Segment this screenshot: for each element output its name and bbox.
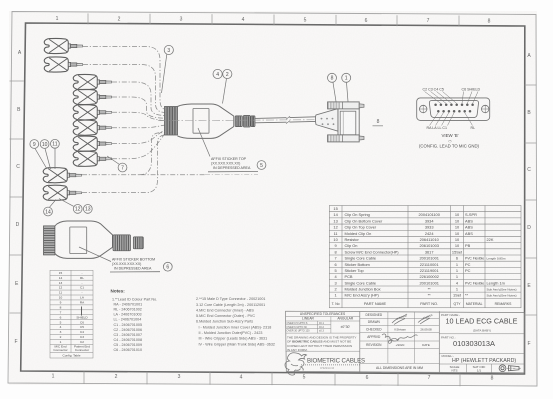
main cable (12 core)	[255, 116, 316, 123]
view B mounting hole right	[482, 105, 489, 112]
affix sticker bottom note	[112, 257, 155, 270]
zone numbers top	[56, 16, 491, 25]
callout balloon 7	[118, 163, 127, 172]
callout 8 leader	[333, 83, 336, 102]
biometric cables logo swan	[285, 353, 307, 375]
affix sticker top note	[211, 157, 251, 170]
callout 1 leader	[347, 83, 349, 102]
zone ticks bottom	[83, 371, 85, 384]
view B top leaders	[425, 92, 479, 104]
clip connector 6 (C-lead)	[73, 120, 111, 135]
clip connector 2 (RL lead)	[44, 57, 82, 72]
tolerance block	[286, 317, 360, 352]
callout balloon 13	[83, 205, 92, 214]
clip connector 4 (C-lead)	[73, 89, 111, 104]
part name cell	[439, 334, 524, 373]
view B connector shell	[417, 98, 490, 121]
parts list table	[329, 206, 521, 308]
callout 7 leader	[107, 156, 120, 165]
copyright note	[287, 335, 356, 352]
clip connector 8 (C-lead)	[73, 151, 111, 166]
wire lead 3	[112, 82, 166, 116]
projection symbol	[499, 365, 521, 372]
callout 14 leader	[50, 200, 57, 208]
callout balloon 1	[342, 73, 351, 82]
callout balloon 10	[40, 140, 49, 149]
callout 12/13 leader	[59, 199, 74, 207]
callout balloon 12	[73, 205, 82, 214]
junction strain-relief rings	[235, 115, 255, 127]
M/C end connector side view - boot	[316, 109, 339, 132]
wire lead 6	[112, 125, 166, 128]
notes column 2	[196, 297, 275, 346]
configuration table	[50, 270, 93, 358]
callout balloon 8	[328, 73, 337, 82]
signature block grid	[360, 312, 440, 364]
clip connector 7 (C-lead)	[73, 136, 111, 151]
view B mounting hole left	[420, 105, 427, 112]
molded junction wire gripper (leads side)	[165, 107, 178, 136]
wire lead 5	[112, 112, 166, 121]
title block outline	[286, 311, 525, 373]
affix sticker top leader	[198, 128, 210, 157]
clip connector 3 (C-lead)	[73, 74, 111, 89]
callout balloon 14	[44, 207, 53, 216]
view B pin labels top	[423, 87, 481, 91]
view B D-shell	[429, 100, 478, 117]
molded junction box bottom view	[55, 221, 113, 258]
connector bottom cap with knurl	[328, 135, 360, 142]
callout 4/2 leader	[223, 78, 227, 103]
M/C end connector body	[338, 108, 359, 137]
M/C end connector face plate	[340, 111, 356, 135]
molded junction box body	[178, 104, 234, 138]
view B pin labels bottom	[427, 126, 476, 130]
bottom thumbscrew stub	[359, 136, 364, 140]
bottom junction nozzle rings	[113, 235, 143, 251]
view B bottom leaders	[430, 113, 473, 126]
callout balloon 5	[257, 161, 266, 170]
callout balloon 4	[213, 69, 222, 78]
zone numbers bottom	[52, 374, 494, 382]
callout balloon 9	[30, 140, 39, 149]
wire lead 1	[83, 47, 166, 110]
clip connector 10 (LL lead)	[43, 185, 81, 200]
sticker top recess	[193, 109, 209, 134]
zone letters right	[527, 53, 531, 347]
clip connector 9 (LA lead)	[43, 168, 81, 183]
wire lead 10	[82, 135, 166, 193]
view B pins row 1	[434, 104, 474, 113]
connector top cap with knurl	[328, 102, 360, 109]
callout balloon 6	[163, 262, 172, 271]
wire lead 9	[82, 174, 205, 176]
wire lead 4	[112, 97, 166, 118]
top thumbscrew stub	[359, 104, 364, 108]
zone letters left	[14, 50, 21, 345]
notes column 1	[112, 297, 157, 352]
junction centre line	[158, 120, 338, 121]
main trunk wire gripper	[44, 226, 55, 255]
affix sticker bottom leader	[79, 247, 111, 262]
zone ticks left	[10, 80, 24, 82]
callout balloon 11	[51, 139, 60, 148]
clip connector 5 (C-lead)	[73, 105, 111, 120]
wire lead 7	[112, 129, 166, 144]
wire lead 2	[83, 65, 166, 113]
callout 3 leader	[162, 54, 167, 93]
zone ticks top	[87, 13, 89, 24]
clip connector 1 (RA lead)	[44, 38, 82, 53]
config table jumper mark	[81, 307, 83, 316]
wire lead 9 rise	[139, 133, 166, 175]
wire lead 8	[112, 132, 166, 159]
zone ticks right	[525, 84, 537, 86]
callout 9/10/11 leaders	[35, 148, 55, 169]
callout balloon 3	[164, 45, 173, 54]
sticker bottom recess	[70, 227, 87, 254]
callout balloon 2	[223, 69, 232, 78]
signature scribbles	[382, 314, 430, 343]
